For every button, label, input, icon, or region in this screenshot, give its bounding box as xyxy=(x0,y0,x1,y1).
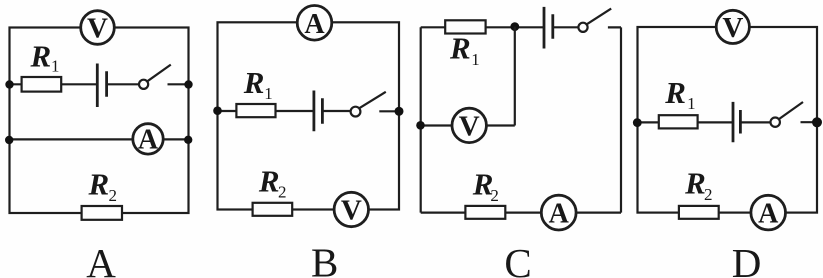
wire: circuit A middle branch 1 xyxy=(10,83,189,85)
svg-text:A: A xyxy=(86,240,116,278)
voltmeter V (circuit A) xyxy=(81,11,115,45)
svg-text:D: D xyxy=(732,240,762,278)
wire: circuit D middle branch xyxy=(638,121,818,123)
svg-text:1: 1 xyxy=(51,56,60,75)
wire: circuit C right edge xyxy=(620,27,622,212)
svg-text:V: V xyxy=(722,12,743,44)
junction dot (circuit A, right of branch 2) xyxy=(184,136,192,144)
resistor R1 (circuit C) xyxy=(445,20,485,33)
wire: circuit C bottom xyxy=(421,212,621,214)
option label C xyxy=(504,240,531,278)
resistor R2 (circuit D) xyxy=(679,206,719,219)
wire: circuit A outer frame xyxy=(10,28,189,214)
resistor R2 (circuit A) xyxy=(82,206,122,220)
wire: circuit C left edge xyxy=(420,27,422,212)
label R1 (circuit D) xyxy=(664,75,695,113)
ammeter A (circuit D) xyxy=(751,195,786,230)
wire: circuit C voltmeter branch xyxy=(421,27,515,126)
junction dot (circuit D, right) xyxy=(812,117,822,127)
wire: circuit A middle branch 2 xyxy=(10,138,189,140)
label R2 (circuit A) xyxy=(88,167,118,205)
label R2 (circuit D) xyxy=(684,165,712,204)
svg-text:C: C xyxy=(504,240,531,278)
junction dot (circuit B, right) xyxy=(395,107,404,116)
junction dot (circuit A, left of branch 1) xyxy=(5,80,13,88)
resistor R1 (circuit D) xyxy=(659,115,698,128)
junction dot (circuit B, left) xyxy=(213,106,222,115)
resistor R1 (circuit A) xyxy=(22,77,62,92)
svg-text:R: R xyxy=(449,30,471,65)
resistor R2 (circuit B) xyxy=(253,203,293,216)
battery (circuit C) xyxy=(544,7,553,49)
voltmeter V (circuit D) xyxy=(716,10,749,44)
svg-text:V: V xyxy=(341,195,362,227)
label R1 (circuit B) xyxy=(243,65,273,103)
svg-text:A: A xyxy=(758,199,779,230)
svg-text:B: B xyxy=(311,240,338,278)
ammeter A (circuit B) xyxy=(297,6,332,41)
junction dot (circuit A, left of branch 2) xyxy=(5,136,13,144)
switch (circuit D) xyxy=(771,102,804,127)
option label D xyxy=(732,240,762,278)
battery (circuit D) xyxy=(733,102,740,142)
ammeter A (circuit C) xyxy=(541,195,576,230)
junction dot (circuit D, left) xyxy=(633,118,642,127)
junction dot (circuit C, left node) xyxy=(416,121,425,130)
wire: circuit B middle branch xyxy=(218,110,400,113)
switch (circuit C) xyxy=(578,9,611,32)
svg-text:1: 1 xyxy=(471,50,480,69)
svg-text:1: 1 xyxy=(687,94,696,113)
junction dot (circuit A, right of branch 1) xyxy=(184,80,192,88)
label R1 (circuit C) xyxy=(449,30,480,69)
svg-text:2: 2 xyxy=(278,183,287,202)
battery (circuit A) xyxy=(97,64,106,108)
label R2 (circuit C) xyxy=(472,167,499,205)
option label B xyxy=(311,240,338,278)
resistor R1 (circuit B) xyxy=(236,104,275,117)
svg-text:R: R xyxy=(88,167,110,202)
svg-text:2: 2 xyxy=(704,185,713,204)
wire: circuit D outer frame xyxy=(638,27,818,213)
wire: circuit B outer frame xyxy=(218,22,400,209)
svg-text:A: A xyxy=(138,124,159,155)
label R2 (circuit B) xyxy=(258,163,287,201)
svg-text:V: V xyxy=(459,110,480,142)
resistor R2 (circuit C) xyxy=(465,206,505,219)
svg-text:R: R xyxy=(243,65,265,100)
svg-text:R: R xyxy=(684,165,706,200)
junction dot (circuit C, top node) xyxy=(510,22,519,31)
svg-text:R: R xyxy=(30,39,52,74)
wire: circuit C top segments xyxy=(421,26,621,28)
option label A xyxy=(86,240,116,278)
switch (circuit B) xyxy=(351,92,386,117)
voltmeter V (circuit C) xyxy=(452,108,486,142)
svg-text:A: A xyxy=(549,199,570,230)
svg-text:2: 2 xyxy=(109,186,118,205)
svg-text:A: A xyxy=(304,9,325,40)
ammeter A (circuit A) xyxy=(133,124,163,156)
svg-text:2: 2 xyxy=(490,186,499,205)
switch (circuit A) xyxy=(139,65,171,89)
battery (circuit B) xyxy=(314,91,323,132)
voltmeter V (circuit B) xyxy=(334,192,368,226)
svg-text:R: R xyxy=(258,163,280,198)
svg-text:1: 1 xyxy=(264,84,273,103)
label R1 (circuit A) xyxy=(30,39,60,76)
svg-text:R: R xyxy=(664,75,686,110)
svg-text:V: V xyxy=(87,13,108,45)
